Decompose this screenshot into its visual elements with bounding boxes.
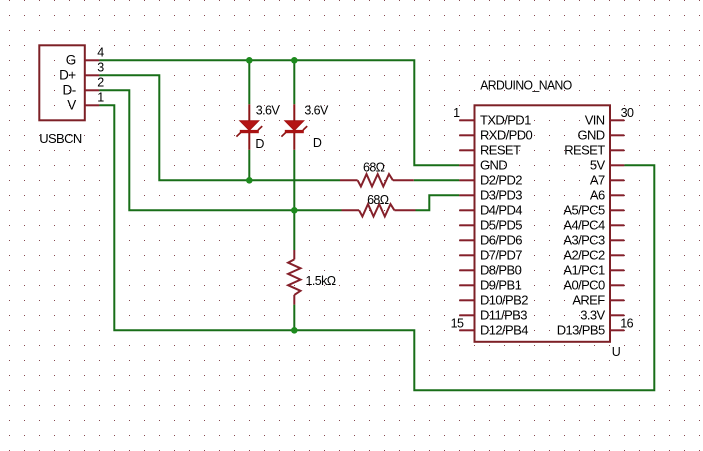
svg-text:RESET: RESET	[480, 143, 521, 158]
U1 pin A2/PC2 stub	[610, 254, 624, 256]
svg-text:TXD/PD1: TXD/PD1	[480, 113, 531, 128]
U1 pin D13/PB5 stub	[610, 329, 624, 331]
wire D1 bottom connection	[248, 150, 250, 181]
U1 right pin names	[557, 113, 606, 338]
junction dot at D1 bottom	[246, 177, 253, 184]
svg-text:D7/PD7: D7/PD7	[480, 248, 522, 263]
svg-text:D5/PD5: D5/PD5	[480, 218, 522, 233]
U1 pin GND stub	[459, 164, 474, 166]
resistor R3 1.5k leads	[293, 250, 295, 259]
svg-text:68Ω: 68Ω	[367, 193, 389, 207]
U1 pin D10/PB2 stub	[459, 299, 474, 301]
svg-text:RXD/PD0: RXD/PD0	[480, 128, 533, 143]
svg-text:A0/PC0: A0/PC0	[563, 278, 605, 293]
svg-text:3: 3	[97, 61, 104, 75]
U1 pin 5V stub	[610, 164, 624, 166]
resistor R2 68ohm zigzag	[359, 204, 394, 216]
svg-text:RESET: RESET	[564, 143, 605, 158]
J1 pin 3 D+ stub	[85, 74, 100, 76]
svg-text:1: 1	[453, 106, 460, 120]
U1 pin 3.3V stub	[610, 314, 624, 316]
junction dot at R3 bottom	[291, 327, 298, 334]
U1 pin A1/PC1 stub	[610, 269, 624, 271]
svg-text:5V: 5V	[590, 158, 606, 173]
svg-text:D11/PB3: D11/PB3	[480, 308, 527, 323]
U1 pin A5/PC5 stub	[610, 209, 624, 211]
zener diode D2 top lead	[293, 104, 295, 121]
J1 pin 1 V stub	[85, 104, 100, 106]
svg-text:AREF: AREF	[572, 293, 605, 308]
resistor R1 68ohm leads	[340, 179, 358, 181]
svg-text:GND: GND	[480, 158, 507, 173]
svg-text:A1/PC1: A1/PC1	[563, 263, 605, 278]
U1 pin GND-right stub	[610, 134, 624, 136]
svg-text:A7: A7	[590, 173, 605, 188]
svg-text:GND: GND	[578, 128, 605, 143]
resistor R3 1.5k zigzag	[288, 259, 300, 295]
svg-text:A6: A6	[590, 188, 605, 203]
wire R1 out to U1 D2/PD2	[414, 179, 460, 181]
U1 left pin stubs	[459, 120, 474, 330]
wire D2 top connection	[293, 60, 295, 104]
zener diode D1 top lead	[248, 104, 250, 121]
U1 pin D2/PD2 stub	[459, 179, 474, 181]
U1 pin TXD/PD1 stub	[459, 119, 474, 121]
svg-text:3.6V: 3.6V	[256, 104, 281, 118]
U1 pin D12/PB4 stub	[459, 329, 474, 331]
svg-text:3.3V: 3.3V	[580, 308, 605, 323]
connector J1 USBCN body	[39, 45, 85, 120]
svg-text:D12/PB4: D12/PB4	[480, 323, 528, 338]
svg-text:VIN: VIN	[585, 113, 605, 128]
svg-text:D10/PB2: D10/PB2	[480, 293, 528, 308]
svg-text:16: 16	[620, 316, 633, 330]
zener diode D1 bottom lead	[248, 133, 250, 150]
wire net D+ : USB D+ down to y180 row	[99, 75, 340, 180]
wire net D- : USB D- down to y210 row	[99, 90, 341, 210]
svg-text:1: 1	[97, 91, 104, 105]
J1 pin 2 D- stub	[85, 89, 100, 91]
svg-text:D4/PD4: D4/PD4	[480, 203, 522, 218]
wire R2 out to U1 D3/PD3	[416, 195, 460, 210]
svg-text:A4/PC4: A4/PC4	[563, 218, 605, 233]
IC U1 ARDUINO_NANO body	[475, 105, 611, 341]
zener diode D2 triangle	[285, 121, 304, 131]
svg-text:1.5kΩ: 1.5kΩ	[306, 274, 336, 288]
svg-text:15: 15	[451, 316, 464, 330]
junction dot at D1 top	[246, 57, 253, 64]
zener diode D2 cathode bar	[285, 130, 304, 133]
U1 pin RXD/PD0 stub	[459, 134, 474, 136]
U1 pin RESET-left stub	[459, 149, 474, 151]
svg-text:D9/PB1: D9/PB1	[480, 278, 522, 293]
zener diode D2 bottom lead	[293, 133, 295, 150]
zener diode D1 left hook	[236, 133, 240, 137]
U1 pin A6 stub	[610, 194, 624, 196]
svg-text:D: D	[255, 137, 264, 151]
zener diode D2 left hook	[281, 133, 285, 137]
U1 pin D3/PD3 stub	[459, 194, 474, 196]
wire D1 top connection	[248, 60, 250, 104]
zener diode D1 right hook	[258, 126, 262, 130]
svg-text:ARDUINO_NANO: ARDUINO_NANO	[480, 77, 572, 92]
junction dot at D2 top	[291, 57, 298, 64]
U1 pin A4/PC4 stub	[610, 224, 624, 226]
wire D2 junction down to R3	[293, 210, 295, 250]
svg-text:U: U	[612, 345, 621, 359]
U1 pin D9/PB1 stub	[459, 284, 474, 286]
svg-text:G: G	[66, 53, 76, 68]
U1 pin D8/PB0 stub	[459, 269, 474, 271]
svg-text:V: V	[67, 98, 76, 113]
svg-text:68Ω: 68Ω	[363, 161, 385, 175]
svg-text:2: 2	[97, 76, 104, 90]
wire net VBUS : USB V down, across bottom, to 5V	[99, 105, 654, 390]
U1 pin D7/PD7 stub	[459, 254, 474, 256]
svg-text:D8/PB0: D8/PB0	[480, 263, 522, 278]
wire D2 bottom connection	[293, 150, 295, 211]
svg-text:D2/PD2: D2/PD2	[480, 173, 522, 188]
U1 left pin names	[480, 113, 533, 338]
U1 pin D5/PD5 stub	[459, 224, 474, 226]
svg-text:D-: D-	[63, 83, 76, 98]
svg-text:D+: D+	[59, 68, 76, 83]
svg-text:D13/PB5: D13/PB5	[557, 323, 605, 338]
wire net GND: USB G to U1 GND	[99, 60, 459, 165]
J1 pin 4 G stub	[85, 59, 100, 61]
zener diode D2 right hook	[303, 126, 307, 130]
U1 pin D6/PD6 stub	[459, 239, 474, 241]
zener diode D1 triangle	[240, 121, 259, 131]
svg-text:4: 4	[97, 46, 104, 60]
U1 pin AREF stub	[610, 299, 624, 301]
U1 pin D4/PD4 stub	[459, 209, 474, 211]
svg-text:A3/PC3: A3/PC3	[563, 233, 605, 248]
U1 pin RESET-right stub	[610, 149, 624, 151]
svg-text:D: D	[313, 136, 322, 150]
U1 pin D11/PB3 stub	[459, 314, 474, 316]
svg-text:3.6V: 3.6V	[304, 104, 329, 118]
junction dot at D2 bottom	[291, 207, 298, 214]
svg-text:A5/PC5: A5/PC5	[563, 203, 605, 218]
U1 pin VIN stub	[610, 119, 624, 121]
wire R3 bottom to VBUS row	[293, 305, 295, 331]
svg-text:D6/PD6: D6/PD6	[480, 233, 522, 248]
svg-text:D3/PD3: D3/PD3	[480, 188, 522, 203]
U1 pin A7 stub	[610, 179, 624, 181]
svg-text:USBCN: USBCN	[39, 131, 82, 146]
U1 pin A3/PC3 stub	[610, 239, 624, 241]
resistor R2 68ohm leads	[342, 209, 360, 211]
resistor R1 68ohm zigzag	[358, 174, 393, 186]
svg-text:A2/PC2: A2/PC2	[563, 248, 605, 263]
zener diode D1 cathode bar	[240, 130, 259, 133]
svg-text:30: 30	[621, 106, 634, 120]
U1 pin A0/PC0 stub	[610, 284, 624, 286]
U1 right pin stubs	[610, 120, 624, 330]
